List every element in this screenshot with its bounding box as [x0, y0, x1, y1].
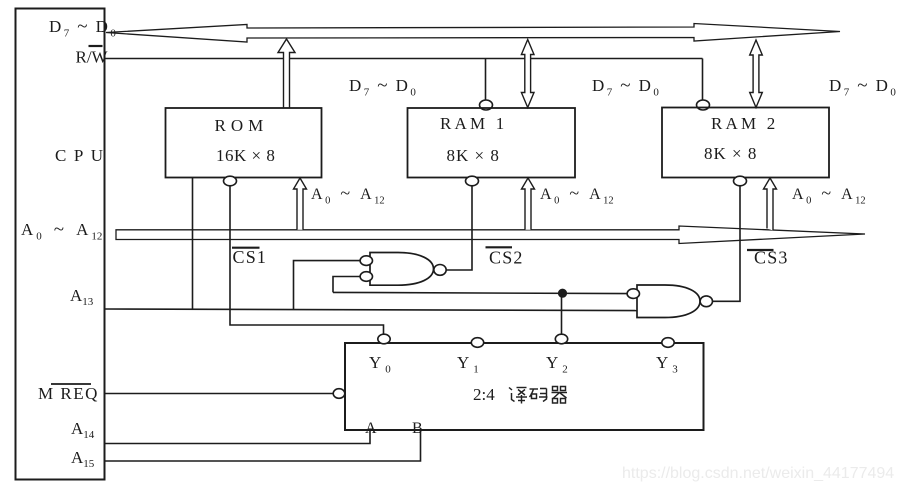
svg-text:ROM: ROM [215, 116, 269, 135]
svg-text:R/W: R/W [76, 48, 109, 67]
nand gate G1 [370, 253, 434, 286]
svg-text:8K × 8: 8K × 8 [447, 146, 500, 165]
bubble CS RAM1 [466, 176, 479, 186]
wire A14 to decoder A [104, 430, 370, 444]
wire MREQ [105, 393, 333, 395]
wire RAM2 CS to NAND2 output [713, 186, 741, 301]
hanzi ma (码) [530, 389, 548, 402]
svg-text:D7~D0: D7~D0 [349, 75, 416, 99]
data bus D7~D0 (double-ended hollow arrow) [106, 24, 840, 43]
decoder box [345, 343, 704, 430]
svg-text:M REQ: M REQ [38, 384, 99, 403]
wire RAM1 CS to NAND1 output [446, 186, 472, 270]
bubble Y2 [555, 334, 567, 344]
svg-text:2:4: 2:4 [473, 385, 495, 404]
ROM box [166, 108, 322, 178]
wire R/W horizontal [105, 58, 703, 60]
wire CS1 vertical and elbow to Y0 [230, 186, 384, 334]
wire ROM A13 vertical [192, 178, 194, 310]
bubble CS RAM2 [734, 176, 747, 186]
svg-text:16K × 8: 16K × 8 [216, 146, 275, 165]
data double-arrow RAM2-bus [750, 40, 763, 108]
svg-text:D7~D0: D7~D0 [49, 16, 116, 40]
bubble MREQ enable [333, 389, 345, 399]
wire Y2 horizontal [333, 292, 627, 293]
nand gate G2 [637, 285, 700, 318]
svg-text:A: A [365, 420, 377, 437]
bubble WE RAM2 [697, 100, 710, 110]
address arrow bus-ROM [294, 178, 307, 230]
wire A15 to decoder B [104, 430, 421, 461]
svg-text:D7~D0: D7~D0 [592, 75, 659, 99]
address bus A0~A12 (long right arrow) [116, 226, 865, 244]
svg-text:CPU: CPU [55, 146, 111, 165]
svg-text:8K × 8: 8K × 8 [704, 144, 757, 163]
junction dot Y2 [558, 289, 567, 298]
CPU box [16, 9, 105, 480]
RAM2 box [662, 108, 829, 178]
wire Y2 to G1 bottom input [333, 277, 360, 293]
bubble CS ROM [224, 176, 237, 186]
wire dot to Y2 bubble [561, 293, 563, 334]
address arrow bus-RAM2 [764, 178, 777, 231]
bubble WE RAM1 [480, 100, 493, 110]
bubble Y0 [378, 334, 390, 344]
address arrow bus-RAM1 [522, 178, 535, 230]
svg-text:RAM 1: RAM 1 [440, 114, 507, 133]
bubble Y3 [662, 338, 674, 348]
hanzi yi (译) [509, 388, 527, 404]
svg-text:https://blog.csdn.net/weixin_4: https://blog.csdn.net/weixin_44177494 [622, 465, 894, 482]
svg-text:CS1: CS1 [233, 247, 268, 267]
hanzi qi (器) [552, 387, 568, 404]
RAM1 box [408, 108, 576, 178]
wire R/W branch to RAM1 [485, 59, 487, 100]
wire A13 to G1 top input [294, 261, 361, 310]
svg-text:CS2: CS2 [489, 248, 524, 268]
data double-arrow RAM1-bus [521, 40, 534, 108]
wire R/W drop to RAM2 [702, 59, 704, 100]
svg-text:D7~D0: D7~D0 [829, 75, 896, 99]
svg-text:RAM 2: RAM 2 [711, 114, 778, 133]
bubble Y1 [471, 338, 483, 348]
wire A13 horizontal [105, 309, 637, 311]
data arrow ROM to bus (hollow, head up) [278, 39, 295, 108]
